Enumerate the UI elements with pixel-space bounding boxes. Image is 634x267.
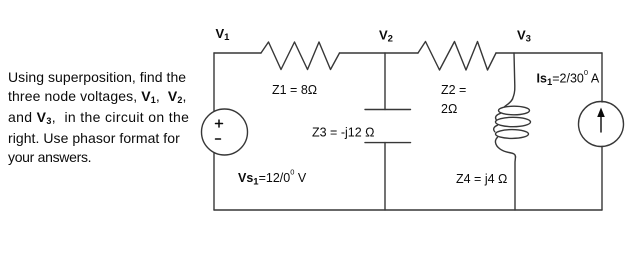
svg-text:Z1 = 8Ω: Z1 = 8Ω (272, 83, 317, 97)
svg-text:V3: V3 (517, 28, 531, 45)
wire: top right horizontal (Z2 to top-right corner through node V3) (496, 52, 602, 54)
wire: capacitor branch lower (bottom plate to bottom rail) (384, 143, 386, 210)
current source arrow (600, 113, 602, 132)
svg-text:Is1=2/300 A: Is1=2/300 A (537, 68, 600, 88)
svg-text:V2: V2 (379, 28, 393, 45)
wire: inductor branch upper (V3 down to coil) (513, 53, 515, 99)
svg-text:V1: V1 (216, 26, 231, 43)
wire: right vertical upper (top-right corner to current source) (601, 53, 603, 102)
svg-text:Vs1=12/00 V: Vs1=12/00 V (238, 168, 307, 188)
inductor Z4 coil (494, 99, 531, 157)
label 2Ω (441, 102, 457, 116)
wire: left vertical upper (V1 down to voltage source) (213, 53, 215, 111)
minus sign inside source (216, 138, 221, 140)
voltage source Vs1 circle (202, 109, 248, 155)
label Z3 = -j12 Ω (312, 126, 375, 140)
label Z4 = j4 Ω (456, 172, 507, 186)
svg-text:Z4 = j4 Ω: Z4 = j4 Ω (456, 172, 507, 186)
node V2 label (379, 28, 393, 45)
resistor Z2 (418, 42, 496, 71)
wire: inductor branch lower (coil to bottom rail) (514, 157, 517, 210)
problem statement text block (8, 68, 189, 167)
wire: capacitor branch upper (V2 down to top plate) (384, 53, 386, 110)
label Z2 = (441, 83, 466, 97)
current source Is1 circle (579, 102, 624, 147)
resistor Z1 (261, 42, 340, 70)
wire: right vertical lower (current source to bottom rail) (601, 147, 603, 211)
capacitor Z3 bottom plate (365, 142, 411, 144)
svg-text:2Ω: 2Ω (441, 102, 457, 116)
capacitor Z3 top plate (365, 109, 411, 111)
wire: left vertical lower (source to bottom rail) (213, 153, 215, 210)
label Vs1=12/0^0 V (238, 168, 307, 188)
wire: top middle horizontal (Z1 to Z2 through node V2) (340, 52, 419, 54)
node V1 label (216, 26, 231, 43)
plus sign inside source (216, 120, 223, 127)
node V3 label (517, 28, 531, 45)
label Is1=2/30^0 A (537, 68, 600, 88)
svg-text:Z2 =: Z2 = (441, 83, 466, 97)
wire: top-left horizontal (V1 node to Z1) (214, 52, 261, 54)
svg-text:Z3 = -j12 Ω: Z3 = -j12 Ω (312, 126, 375, 140)
wire: bottom rail (214, 209, 602, 211)
label Z1 = 8Ω (272, 83, 317, 97)
